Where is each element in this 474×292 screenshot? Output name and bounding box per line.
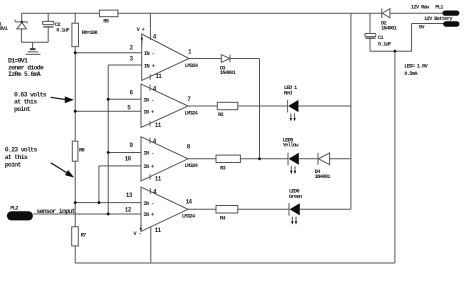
svg-text:IN +: IN +: [143, 212, 154, 218]
resistor R2: [217, 102, 238, 118]
connector PL2: [7, 205, 33, 220]
svg-text:point: point: [14, 106, 31, 113]
wire LED anode rail: [350, 13, 352, 209]
connector PL1: [411, 5, 460, 16]
svg-text:12: 12: [125, 206, 132, 213]
wire R2 to LED1: [238, 105, 288, 107]
svg-text:IN -: IN -: [143, 201, 154, 207]
svg-text:R8: R8: [79, 148, 85, 154]
connector battery: [412, 16, 460, 31]
wire pin13 (node B to op4 IN-): [75, 202, 141, 204]
wire divider rail upper: [74, 47, 76, 142]
node A junction pin5: [74, 110, 77, 113]
svg-text:8: 8: [187, 144, 191, 151]
svg-text:R4: R4: [220, 215, 227, 221]
wire top rail left: [22, 12, 100, 14]
svg-text:0.1uF: 0.1uF: [378, 41, 391, 47]
junction D3 rail to yellow row: [258, 157, 261, 160]
resistor R6: [72, 13, 99, 46]
svg-text:12V Raw: 12V Raw: [411, 5, 430, 11]
wire pin10 rail (node B to op3 IN+): [99, 166, 141, 203]
svg-text:R7: R7: [81, 233, 87, 239]
svg-text:sensor input: sensor input: [36, 208, 75, 215]
svg-text:V -: V -: [133, 231, 141, 237]
wire divider rail lower: [74, 161, 76, 227]
svg-text:1N4001: 1N4001: [381, 26, 397, 32]
svg-text:3: 3: [130, 55, 134, 62]
svg-text:11: 11: [155, 122, 162, 129]
svg-text:0.63 volts: 0.63 volts: [14, 91, 47, 98]
svg-text:IN +: IN +: [143, 109, 154, 115]
wire op3 output: [188, 158, 216, 160]
resistor R8: [72, 141, 84, 161]
sensor junction pin6: [107, 98, 110, 101]
svg-text:LM324: LM324: [185, 110, 199, 116]
svg-text:1N4001: 1N4001: [315, 174, 331, 180]
wire sensor input: [33, 213, 141, 215]
svg-text:IN +: IN +: [144, 63, 155, 69]
svg-text:LM324: LM324: [185, 63, 199, 69]
annotation arrow 0.63V: [51, 96, 74, 103]
node A junction pin2: [74, 51, 77, 54]
op-amp U1C: [125, 137, 199, 183]
svg-text:IN -: IN -: [143, 151, 154, 157]
capacitor C2: [43, 13, 70, 42]
wire LED6 to LED rail: [300, 208, 351, 210]
svg-text:LED= 1.8V: LED= 1.8V: [404, 63, 428, 69]
LED LED5 Yellow: [283, 138, 300, 175]
diode D3: [220, 55, 236, 76]
svg-text:4: 4: [153, 34, 157, 41]
svg-text:IN +: IN +: [143, 164, 154, 170]
annotation arrow 0.23V: [51, 163, 74, 178]
svg-text:1N4001: 1N4001: [220, 70, 236, 76]
wire top rail right to PL1: [390, 12, 444, 14]
wire LED1 to LED rail: [298, 105, 351, 107]
wire D4 to LED rail: [330, 158, 351, 160]
op-amp U1A: [130, 13, 199, 80]
LED LED6 Green: [289, 189, 302, 225]
op-amp U1B: [127, 84, 198, 129]
wire zener/C2 bottom loop: [21, 41, 48, 43]
wire sensor vertical rail: [107, 65, 109, 214]
wire D3 to rail: [230, 58, 260, 60]
zener diode D1: [15, 13, 27, 42]
capacitor C1: [365, 13, 391, 51]
wire op2 output: [188, 105, 217, 107]
svg-text:Green: Green: [289, 194, 302, 200]
svg-text:point: point: [5, 161, 22, 168]
op-amp U1D: [125, 187, 196, 263]
svg-text:5: 5: [127, 105, 131, 112]
svg-text:R6=10K: R6=10K: [82, 30, 99, 36]
svg-text:11: 11: [155, 227, 162, 234]
svg-text:V +: V +: [137, 27, 145, 33]
node B junction pin13: [74, 201, 77, 204]
svg-text:0.23 volts: 0.23 volts: [5, 146, 38, 153]
svg-text:2: 2: [130, 45, 134, 52]
node B junction pin10: [98, 201, 101, 204]
svg-text:LM324: LM324: [185, 163, 199, 169]
svg-text:11: 11: [155, 73, 162, 80]
svg-text:Yellow: Yellow: [283, 143, 300, 149]
resistor R3: [216, 155, 240, 171]
svg-text:PL1: PL1: [435, 5, 443, 11]
svg-text:IzRm 5.6mA: IzRm 5.6mA: [8, 71, 41, 78]
wire pin3 (sensor to op1 IN+): [108, 64, 142, 66]
svg-text:6: 6: [130, 90, 134, 97]
wire R4 to LED6: [238, 208, 289, 210]
svg-text:12V Battery: 12V Battery: [424, 16, 453, 22]
wire pin2 (node A to op1 IN-): [75, 52, 142, 54]
svg-text:0V: 0V: [419, 25, 426, 31]
ground: [26, 42, 41, 54]
wire 0V vertical rail: [394, 51, 396, 263]
wire op4 output: [188, 208, 216, 210]
wire battery 0V drop: [370, 24, 412, 52]
resistor R5: [99, 10, 118, 24]
wire LED5 to D4: [299, 158, 318, 160]
wire pin6 (sensor to op2 IN-): [108, 98, 141, 100]
junction 0V rail: [394, 50, 397, 53]
LED LED1 Red: [284, 85, 299, 121]
resistor R4: [216, 206, 238, 222]
sensor junction pin9: [107, 151, 110, 154]
svg-text:0.1uF: 0.1uF: [56, 28, 69, 34]
svg-text:14: 14: [186, 198, 193, 205]
svg-text:at this: at this: [14, 99, 37, 106]
wire top rail middle: [118, 12, 382, 14]
wire D3 vertical rail: [259, 59, 261, 159]
svg-text:10: 10: [125, 156, 132, 163]
svg-text:R3: R3: [220, 165, 226, 171]
svg-text:9V1: 9V1: [0, 26, 8, 32]
svg-text:R5: R5: [103, 18, 109, 24]
svg-text:LM324: LM324: [182, 214, 196, 220]
svg-text:IN -: IN -: [143, 97, 154, 103]
svg-text:11: 11: [155, 175, 162, 182]
svg-text:at this: at this: [5, 154, 28, 161]
svg-text:9.5mA: 9.5mA: [404, 71, 418, 77]
wire op1 output: [189, 58, 221, 60]
svg-text:PL2: PL2: [10, 205, 18, 211]
svg-text:13: 13: [126, 192, 133, 199]
resistor R7: [72, 227, 86, 246]
svg-text:9: 9: [130, 142, 134, 149]
wire R3 to LED5: [240, 158, 288, 160]
diode D4: [315, 153, 331, 180]
svg-text:1: 1: [188, 48, 192, 55]
wire divider rail to bottom: [74, 246, 76, 263]
wire pin9 (sensor to op3 IN-): [108, 152, 141, 154]
svg-text:Red: Red: [284, 90, 292, 96]
wire pin5 (node A to op2 IN+): [75, 110, 141, 112]
wire bottom rail: [75, 262, 395, 264]
svg-text:IN -: IN -: [144, 51, 155, 57]
svg-text:7: 7: [187, 96, 191, 103]
diode D2: [381, 9, 397, 32]
svg-text:R2: R2: [218, 112, 224, 118]
sensor junction pin12: [107, 213, 110, 216]
svg-text:C1: C1: [378, 35, 384, 41]
